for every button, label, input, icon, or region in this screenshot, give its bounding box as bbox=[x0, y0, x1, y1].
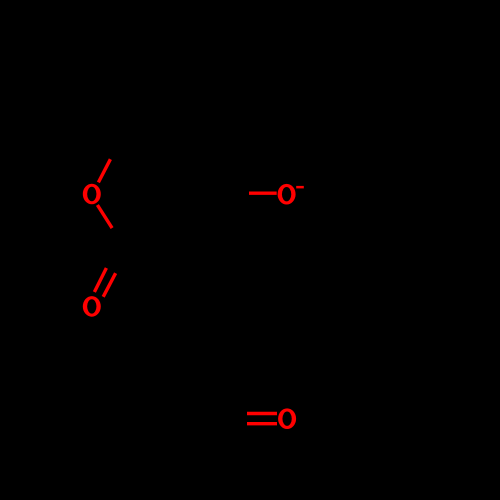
bond O1-C7 ethyl CH2 (red half) bbox=[98, 159, 110, 182]
enolate oxygen O4 (label) bbox=[278, 184, 296, 205]
carbonyl oxygen O3 (label) bbox=[83, 296, 101, 317]
double bond C8=O6 line 1 (red half) bbox=[247, 412, 277, 415]
minus charge on O4 bbox=[296, 186, 304, 189]
double bond C2=O3 line 1 (red half) bbox=[94, 268, 106, 292]
ketone oxygen O6 (label) bbox=[278, 408, 296, 429]
double bond C8=O6 line 2 (red half) bbox=[247, 422, 277, 425]
bond C5-O4 (red half) bbox=[249, 191, 277, 194]
ester oxygen O1 (label) bbox=[83, 184, 101, 205]
bond O1-C2 carbonyl (red half) bbox=[97, 205, 112, 228]
double bond C2=O3 line 2 (red half) bbox=[103, 273, 115, 297]
